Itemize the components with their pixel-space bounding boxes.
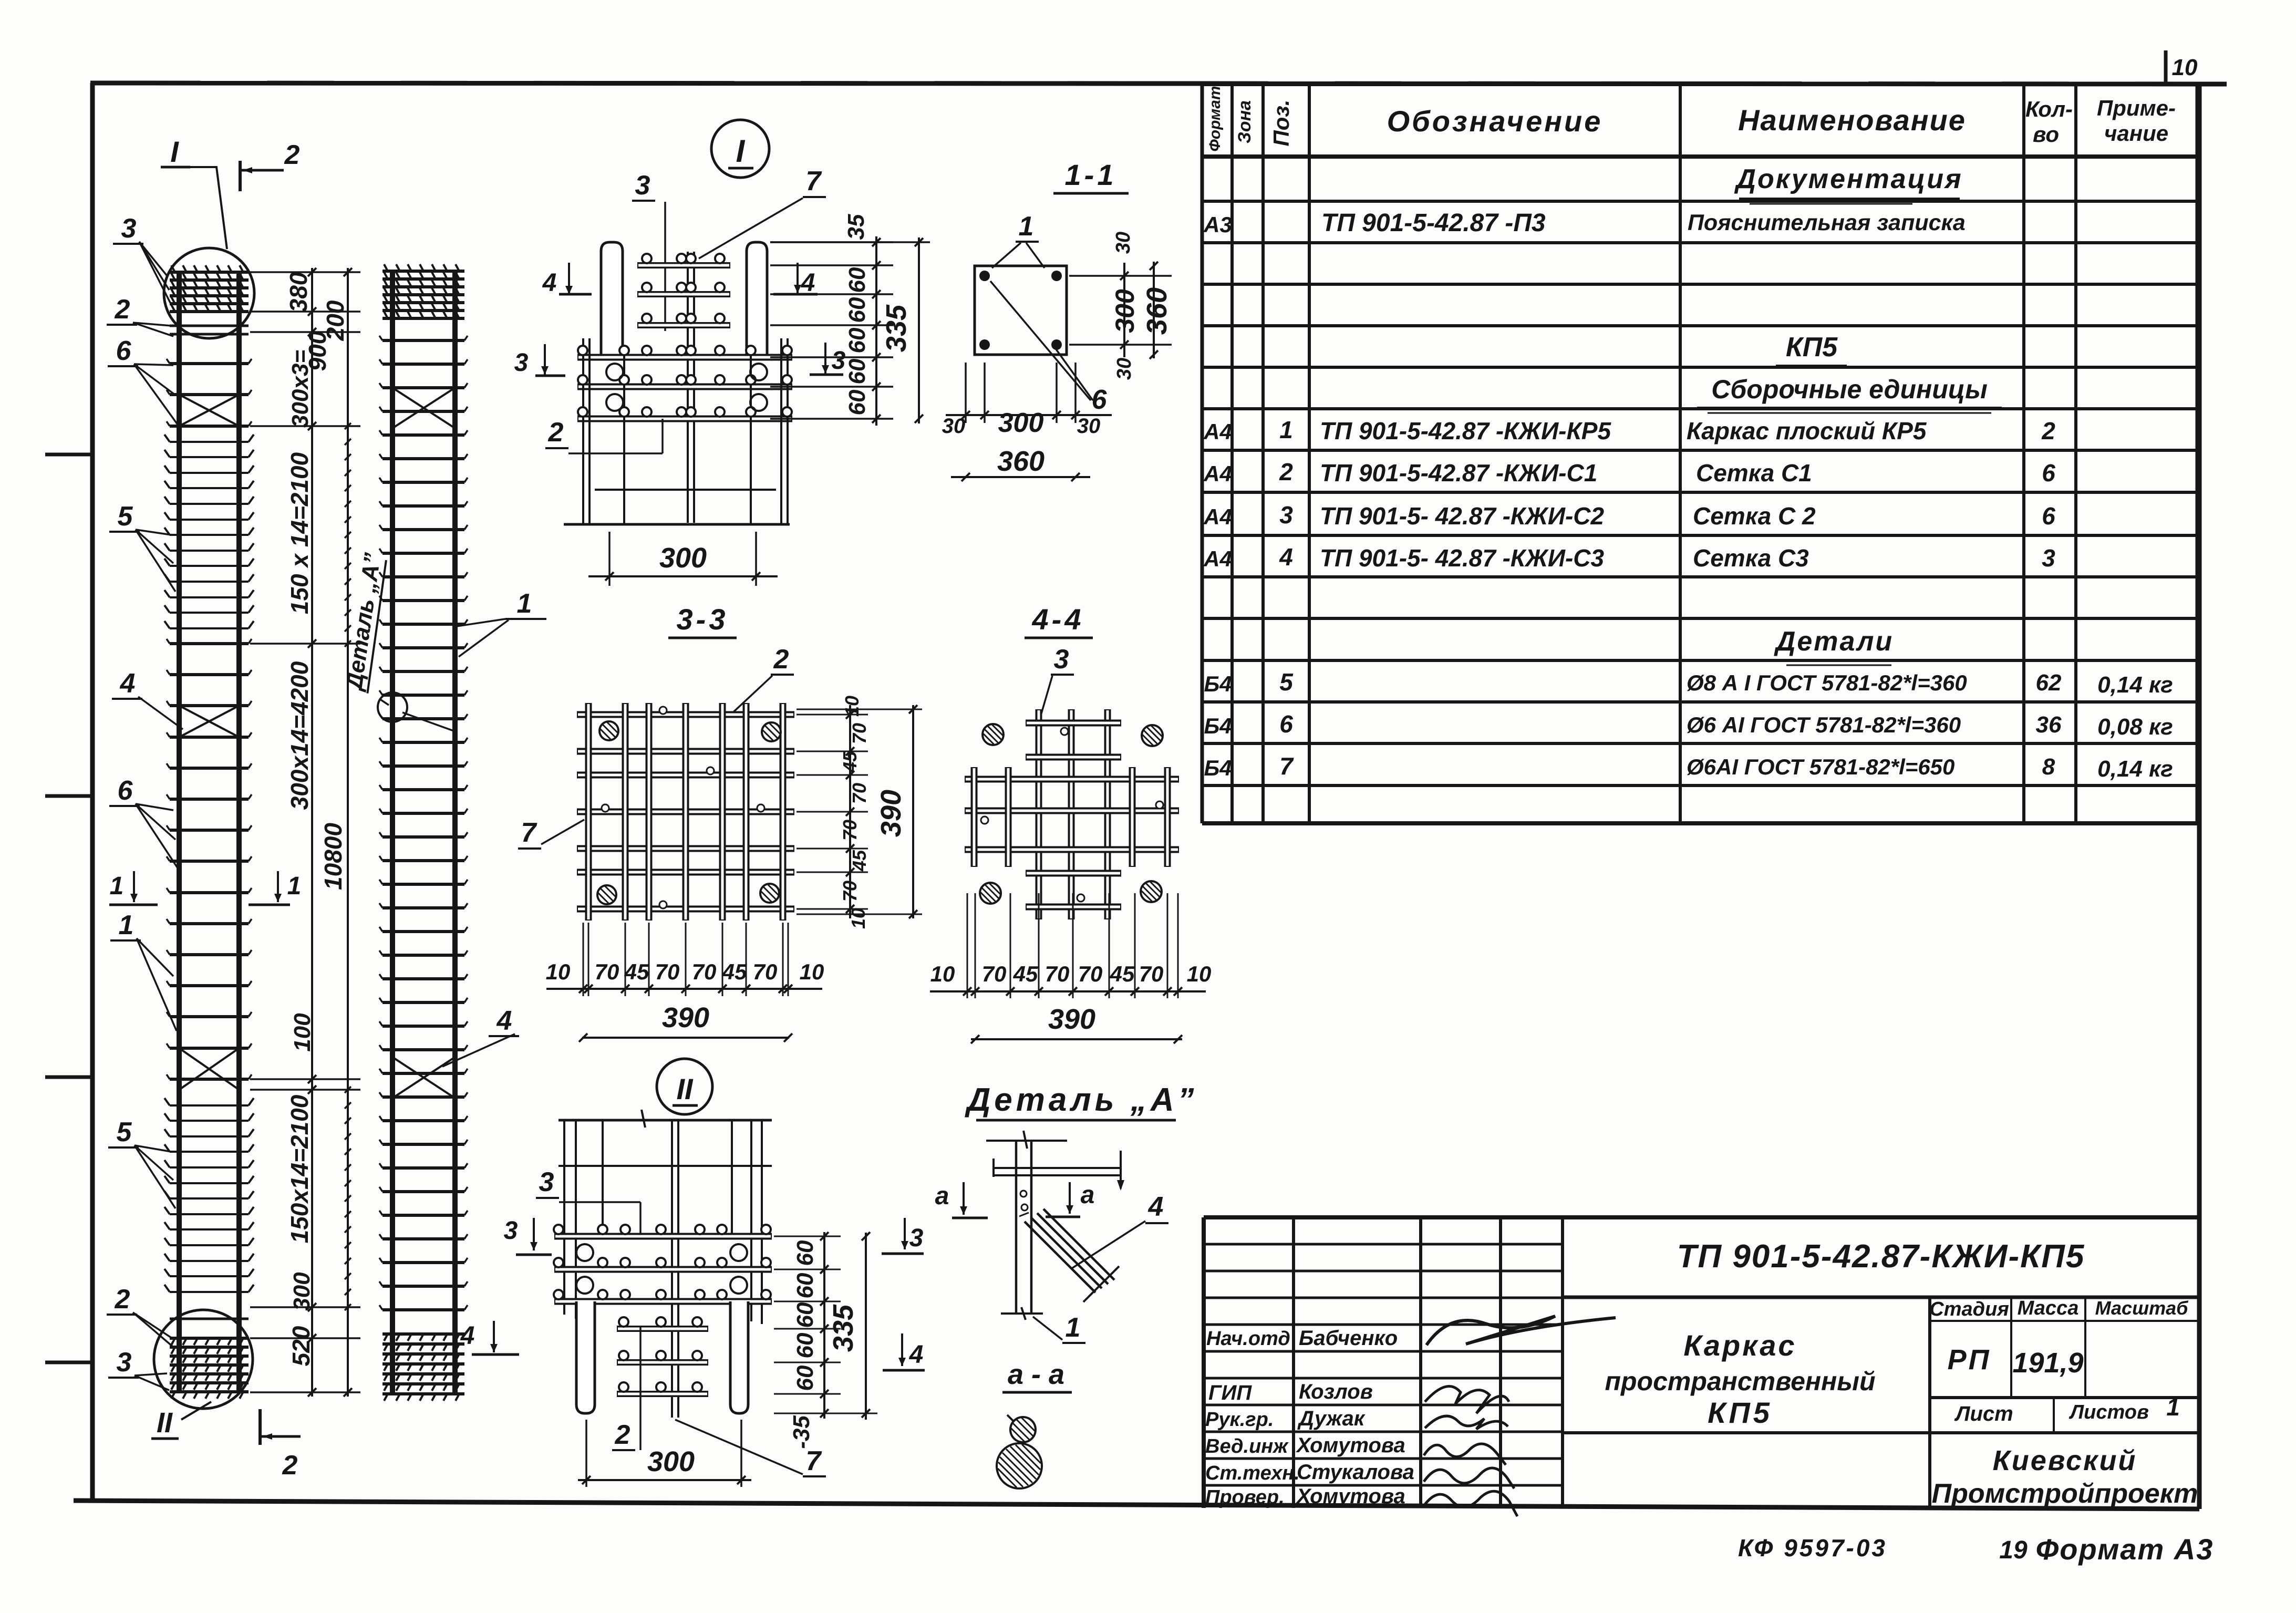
detail II upper rung	[559, 1165, 772, 1167]
detail A rotated title near column 2	[341, 551, 387, 693]
section 4-4 longitudinal bar hatched sections	[982, 724, 1004, 745]
svg-text:45: 45	[722, 959, 747, 984]
svg-text:6: 6	[2042, 502, 2055, 530]
detail I right outer bar post	[747, 242, 767, 355]
svg-text:0,14 кг: 0,14 кг	[2097, 756, 2173, 782]
svg-text:1: 1	[1066, 1312, 1081, 1343]
svg-text:100: 100	[289, 1013, 315, 1052]
svg-text:4: 4	[120, 668, 136, 699]
svg-text:3: 3	[539, 1167, 554, 1197]
svg-text:300: 300	[289, 1272, 315, 1311]
svg-text:390: 390	[1048, 1004, 1095, 1035]
svg-text:70: 70	[1045, 961, 1070, 986]
column 2 bottom mesh zone rungs	[382, 1332, 464, 1336]
section 3-3 mesh vertical bars	[585, 703, 592, 921]
svg-text:Дужак: Дужак	[1297, 1407, 1366, 1430]
section 1-1 right dimension chain 300	[1069, 275, 1172, 277]
column 2 regular rungs	[382, 339, 464, 342]
title block signature Дужак	[1425, 1416, 1508, 1429]
svg-text:19: 19	[1999, 1536, 2028, 1564]
column 1 dense zone rungs 150x14 lower	[170, 1104, 249, 1107]
svg-text:Лист: Лист	[1954, 1402, 2013, 1425]
detail II title circle	[657, 1059, 712, 1114]
svg-text:а: а	[1081, 1181, 1095, 1209]
svg-text:А3: А3	[1203, 212, 1232, 237]
section 1-1 corner bar dots	[979, 271, 990, 281]
section 4-4 center mesh short vertical bars	[971, 767, 978, 867]
svg-text:45: 45	[839, 751, 861, 773]
section 3-3 bottom dimension chain	[588, 923, 589, 996]
section 1-1 total dimension 360 right	[1153, 262, 1155, 358]
svg-text:45: 45	[1110, 961, 1135, 986]
svg-text:Вед.инж: Вед.инж	[1205, 1435, 1289, 1457]
svg-text:Стукалова: Стукалова	[1297, 1461, 1414, 1484]
section 4-4 weld dots	[1061, 728, 1068, 735]
svg-text:Нач.отд: Нач.отд	[1206, 1328, 1290, 1350]
svg-text:4: 4	[497, 1006, 512, 1036]
svg-text:30: 30	[1112, 232, 1134, 254]
svg-text:Детали: Детали	[1774, 626, 1894, 657]
svg-text:3: 3	[635, 170, 650, 201]
svg-text:70: 70	[655, 959, 680, 984]
column 2 top mesh zone rungs	[382, 270, 464, 273]
svg-text:А4: А4	[1203, 504, 1232, 529]
svg-text:4: 4	[1279, 543, 1293, 571]
svg-text:Масштаб: Масштаб	[2095, 1297, 2189, 1319]
svg-text:Пояснительная записка: Пояснительная записка	[1688, 210, 1966, 235]
column 1 bottom mesh zone rungs	[170, 1337, 249, 1340]
svg-text:6: 6	[1092, 385, 1108, 415]
detail II right bottom post	[730, 1301, 748, 1413]
detail A bottom cut mark	[1001, 1312, 1043, 1315]
detail II right dimension chain	[774, 1236, 841, 1237]
svg-text:Ст.техн.: Ст.техн.	[1205, 1462, 1300, 1484]
detail A top rung line	[986, 1140, 1067, 1142]
svg-text:3-3: 3-3	[677, 603, 729, 636]
column 1 300-zone rung	[170, 1318, 249, 1320]
dimension chain line outer 10800	[347, 268, 349, 1397]
section 3-3 mesh horizontal bars	[577, 711, 794, 718]
svg-text:45: 45	[1013, 961, 1038, 986]
svg-text:4: 4	[460, 1322, 475, 1350]
svg-text:7: 7	[521, 818, 537, 848]
svg-text:Кол-: Кол-	[2025, 97, 2073, 121]
section 3-3 right dimension chain	[797, 714, 868, 716]
svg-text:1: 1	[1019, 211, 1034, 242]
svg-text:360: 360	[1141, 287, 1173, 335]
svg-text:Бабченко: Бабченко	[1299, 1327, 1398, 1350]
svg-text:62: 62	[2036, 670, 2062, 696]
svg-text:Каркас: Каркас	[1683, 1329, 1796, 1362]
fold mark ticks on left edge	[45, 453, 92, 457]
section 4-4 upper mesh vertical bars	[1036, 709, 1042, 919]
svg-text:4: 4	[1148, 1192, 1164, 1222]
svg-text:1: 1	[119, 910, 134, 940]
svg-text:Стадия: Стадия	[1929, 1298, 2009, 1320]
svg-text:Зона: Зона	[1235, 100, 1255, 143]
title block signature Стукалова	[1424, 1468, 1514, 1488]
svg-text:2: 2	[115, 294, 130, 325]
svg-text:6: 6	[2042, 459, 2055, 487]
svg-text:Приме-: Приме-	[2097, 96, 2176, 120]
svg-text:7: 7	[1279, 752, 1294, 780]
svg-text:60: 60	[844, 297, 870, 323]
dimension extension lines column 1	[250, 271, 360, 273]
svg-text:КП5: КП5	[1786, 332, 1838, 363]
svg-text:Рук.гр.: Рук.гр.	[1205, 1409, 1274, 1431]
svg-text:Ø6АI ГОСТ 5781-82*l=650: Ø6АI ГОСТ 5781-82*l=650	[1687, 754, 1954, 779]
svg-text:10: 10	[847, 908, 869, 929]
svg-text:Сборочные единицы: Сборочные единицы	[1711, 375, 1988, 404]
svg-text:35: 35	[843, 214, 869, 240]
svg-text:70: 70	[839, 820, 861, 841]
svg-text:2: 2	[548, 417, 564, 448]
title block outer frame	[1204, 1215, 2199, 1219]
svg-text:300: 300	[647, 1446, 695, 1477]
svg-text:КП5: КП5	[1708, 1396, 1773, 1429]
svg-text:Поз.: Поз.	[1269, 100, 1294, 147]
svg-text:390: 390	[875, 790, 907, 837]
svg-text:7: 7	[806, 1446, 822, 1476]
svg-text:I: I	[170, 135, 179, 168]
title block signature Хомутова 1	[1424, 1444, 1506, 1465]
svg-text:Провер.: Провер.	[1205, 1486, 1285, 1508]
svg-text:70: 70	[849, 783, 870, 804]
svg-text:0,14 кг: 0,14 кг	[2097, 672, 2173, 698]
section a-a large bar hatched circle	[997, 1443, 1042, 1488]
svg-text:3: 3	[121, 213, 137, 244]
svg-text:Б4: Б4	[1204, 671, 1232, 696]
svg-text:390: 390	[662, 1002, 709, 1033]
svg-text:3: 3	[504, 1217, 518, 1245]
title block main dividers	[1563, 1296, 2199, 1299]
svg-text:2: 2	[282, 1450, 298, 1481]
svg-text:Листов: Листов	[2069, 1401, 2149, 1423]
detail A horizontal bar	[994, 1167, 1121, 1169]
column 1 top mesh zone rungs	[170, 271, 249, 274]
svg-text:Деталь „А”: Деталь „А”	[964, 1082, 1197, 1118]
section 3-3 total dimension 390 right	[797, 709, 922, 710]
svg-text:2: 2	[1279, 458, 1293, 485]
section 1-1 stirrup square	[975, 266, 1067, 355]
detail II vertical bars	[563, 1120, 565, 1315]
svg-text:Ø6 АI ГОСТ 5781-82*l=360: Ø6 АI ГОСТ 5781-82*l=360	[1687, 712, 1961, 737]
detail II top boundary bar	[559, 1119, 772, 1122]
section 1-1 bottom dimension chain 30 300 30	[965, 363, 967, 423]
svg-text:А4: А4	[1203, 461, 1232, 486]
detail II mesh horizontal bars	[554, 1233, 772, 1240]
svg-text:3: 3	[909, 1224, 924, 1252]
svg-text:3: 3	[2042, 544, 2055, 572]
detail A bent bar bundle	[1025, 1222, 1095, 1293]
svg-text:6: 6	[118, 776, 133, 806]
svg-text:II: II	[157, 1407, 173, 1439]
detail II callout circle on column 1 bottom	[154, 1310, 253, 1409]
detail I upper mesh rungs with cross-bar dots	[637, 262, 730, 268]
svg-text:-35: -35	[789, 1415, 814, 1449]
svg-text:70: 70	[753, 959, 778, 984]
svg-text:60: 60	[792, 1273, 818, 1298]
detail I central vertical bar	[687, 252, 689, 523]
title block signature Хомутова 2	[1424, 1491, 1517, 1516]
svg-text:Ø8 А I ГОСТ 5781-82*l=360: Ø8 А I ГОСТ 5781-82*l=360	[1687, 670, 1967, 695]
detail I callout circle on column 1 top	[164, 248, 254, 338]
svg-text:Хомутова: Хомутова	[1296, 1485, 1405, 1508]
svg-text:2: 2	[773, 644, 789, 675]
svg-text:36: 36	[2036, 712, 2062, 738]
svg-text:335: 335	[828, 1304, 859, 1352]
svg-text:60: 60	[844, 267, 870, 293]
svg-text:300: 300	[1110, 289, 1140, 333]
svg-text:3: 3	[832, 347, 846, 375]
svg-text:Наименование: Наименование	[1738, 104, 1966, 137]
svg-text:3: 3	[117, 1347, 132, 1378]
svg-text:Сетка С3: Сетка С3	[1693, 544, 1809, 572]
detail A weld marks	[1020, 1191, 1027, 1197]
svg-text:6: 6	[116, 336, 132, 366]
svg-text:10800: 10800	[319, 823, 347, 890]
title block signature Козлов	[1425, 1386, 1509, 1413]
svg-text:10: 10	[930, 961, 955, 986]
svg-text:5: 5	[117, 1117, 132, 1147]
svg-text:191,9: 191,9	[2012, 1347, 2083, 1379]
section 4-4 center mesh horizontal bars	[965, 776, 1179, 783]
detail A bent bar end tick	[1083, 1266, 1119, 1302]
svg-text:I: I	[736, 133, 746, 169]
svg-text:ТП 901-5- 42.87 -КЖИ-С3: ТП 901-5- 42.87 -КЖИ-С3	[1320, 544, 1604, 572]
detail I dimension 300 bottom	[608, 532, 611, 586]
title block staff rows	[1204, 1243, 1563, 1246]
svg-text:Б4: Б4	[1204, 714, 1232, 738]
svg-text:4-4: 4-4	[1032, 603, 1084, 636]
section mark 2 bottom of column 1	[258, 1409, 262, 1445]
svg-text:60: 60	[844, 327, 870, 353]
svg-text:30: 30	[1113, 358, 1135, 380]
svg-text:Формат: Формат	[1206, 86, 1224, 151]
detail II lower mesh rungs with dots	[617, 1326, 708, 1332]
specification table grid	[1201, 84, 1204, 823]
svg-text:4: 4	[909, 1341, 924, 1369]
column 1 sparse zone rungs 300x3	[170, 362, 249, 365]
svg-text:а: а	[935, 1182, 949, 1210]
svg-text:3: 3	[1054, 644, 1069, 675]
svg-text:380: 380	[285, 272, 312, 312]
svg-text:6: 6	[1279, 710, 1293, 738]
svg-text:II: II	[676, 1072, 694, 1105]
svg-text:а - а: а - а	[1008, 1359, 1064, 1390]
svg-text:10: 10	[841, 696, 863, 717]
svg-text:3: 3	[514, 349, 529, 377]
svg-text:2: 2	[2041, 417, 2055, 444]
svg-text:60: 60	[792, 1240, 818, 1266]
svg-text:45: 45	[624, 959, 649, 984]
svg-text:Хомутова: Хомутова	[1296, 1434, 1405, 1457]
svg-text:ГИП: ГИП	[1208, 1381, 1252, 1404]
svg-text:чание: чание	[2104, 121, 2168, 146]
svg-text:1: 1	[110, 872, 124, 900]
detail II left bottom post	[576, 1301, 595, 1413]
svg-text:Документация: Документация	[1734, 164, 1962, 194]
svg-text:70: 70	[595, 959, 619, 984]
rebar column elevation view 1 longitudinal bars	[177, 272, 182, 1393]
svg-text:ТП 901-5-42.87-КЖИ-КП5: ТП 901-5-42.87-КЖИ-КП5	[1677, 1238, 2085, 1275]
svg-text:4: 4	[801, 269, 815, 297]
dimension chain line inner column 1	[311, 268, 313, 1397]
svg-text:ТП 901-5-42.87 -П3: ТП 901-5-42.87 -П3	[1321, 209, 1546, 237]
svg-text:70: 70	[1139, 961, 1164, 986]
svg-text:1: 1	[517, 588, 532, 619]
svg-text:10: 10	[1187, 961, 1212, 986]
svg-text:300х14=4200: 300х14=4200	[286, 661, 313, 810]
detail I cage vertical bars	[582, 338, 584, 524]
svg-text:30: 30	[1077, 415, 1101, 438]
svg-text:10: 10	[800, 959, 824, 984]
svg-text:Сетка С1: Сетка С1	[1696, 459, 1812, 487]
svg-text:30: 30	[942, 415, 966, 438]
section 4-4 bottom dimension chain	[967, 893, 968, 998]
svg-text:45: 45	[849, 850, 870, 872]
section 3-3 weld dots	[659, 707, 667, 714]
svg-text:0,08 кг: 0,08 кг	[2097, 714, 2173, 740]
svg-text:150 х 14=2100: 150 х 14=2100	[286, 452, 313, 614]
svg-text:2: 2	[284, 140, 300, 170]
svg-text:5: 5	[118, 501, 133, 532]
svg-text:Козлов: Козлов	[1299, 1380, 1373, 1403]
column 1 sparse zone rungs 300x14	[170, 642, 249, 645]
svg-text:335: 335	[881, 304, 912, 352]
column 1 cross brace X upper	[179, 395, 239, 426]
svg-text:300: 300	[998, 408, 1044, 438]
svg-text:пространственный: пространственный	[1605, 1367, 1875, 1396]
svg-text:7: 7	[806, 166, 822, 197]
svg-text:КФ 9597-03: КФ 9597-03	[1738, 1534, 1887, 1562]
svg-text:2: 2	[115, 1284, 130, 1315]
svg-text:4: 4	[542, 269, 557, 297]
detail I bottom tie bars	[595, 489, 776, 491]
section 4-4 upper and lower short horizontal bars	[1026, 720, 1121, 727]
svg-text:Б4: Б4	[1204, 756, 1232, 780]
section 1-1 total dimension 360 bottom	[951, 476, 1090, 478]
detail II total dimension 335	[865, 1233, 867, 1420]
detail A position circle on column 2	[378, 692, 407, 722]
detail I longitudinal bar section circles	[606, 364, 623, 380]
svg-text:5: 5	[1279, 668, 1294, 696]
svg-text:Киевский: Киевский	[1993, 1445, 2137, 1476]
svg-text:А4: А4	[1203, 419, 1232, 444]
svg-text:60: 60	[844, 389, 870, 415]
column 1 dense zone rungs 150x14 upper	[170, 441, 249, 443]
section a-a small bar hatched circle	[1010, 1417, 1036, 1442]
column 2 cross brace X upper	[392, 388, 455, 428]
detail A vertical bar	[1015, 1141, 1018, 1313]
svg-text:10: 10	[2172, 55, 2198, 80]
svg-text:70: 70	[692, 959, 717, 984]
svg-text:1: 1	[1279, 416, 1293, 443]
detail II dimension 300 bottom	[585, 1420, 587, 1487]
svg-text:Обозначение: Обозначение	[1387, 105, 1603, 138]
detail II longitudinal bar section circles	[576, 1244, 593, 1261]
sheet corner stamp 10	[2164, 50, 2168, 83]
title block staff column lines	[1292, 1217, 1295, 1508]
column 1 cross brace X at 100 zone	[179, 1048, 239, 1090]
svg-text:ТП 901-5-42.87 -КЖИ-С1: ТП 901-5-42.87 -КЖИ-С1	[1320, 459, 1597, 487]
title block signature Бабченко	[1426, 1316, 1616, 1345]
svg-text:2: 2	[615, 1420, 630, 1450]
svg-text:Сетка С 2: Сетка С 2	[1693, 502, 1816, 530]
svg-text:ТП 901-5-42.87 -КЖИ-КР5: ТП 901-5-42.87 -КЖИ-КР5	[1320, 417, 1611, 444]
svg-text:520: 520	[287, 1326, 315, 1366]
detail I left outer bar post	[601, 242, 623, 355]
svg-text:Формат А3: Формат А3	[2036, 1533, 2214, 1566]
svg-text:3: 3	[1279, 501, 1293, 529]
svg-text:70: 70	[1078, 961, 1103, 986]
detail I cage horizontal bars	[577, 354, 792, 361]
svg-text:300: 300	[659, 542, 707, 574]
svg-text:1: 1	[2166, 1393, 2180, 1421]
detail I right dimension chain	[770, 241, 893, 243]
svg-text:8: 8	[2042, 754, 2055, 780]
rebar column elevation view 2 longitudinal bars	[390, 271, 395, 1394]
section 4-4 total dimension 390 bottom	[971, 1038, 1182, 1040]
svg-text:Промстройпроект: Промстройпроект	[1932, 1478, 2198, 1509]
column 1 200-zone rung pair	[170, 325, 249, 327]
svg-text:1-1: 1-1	[1065, 158, 1117, 191]
section mark 2 top of column 1	[239, 161, 242, 191]
svg-text:РП: РП	[1948, 1344, 1991, 1376]
column 1 cross brace X middle	[179, 706, 239, 737]
svg-text:60: 60	[792, 1332, 818, 1358]
svg-text:60: 60	[792, 1302, 818, 1328]
svg-text:ТП 901-5- 42.87 -КЖИ-С2: ТП 901-5- 42.87 -КЖИ-С2	[1320, 502, 1604, 530]
svg-text:1: 1	[287, 872, 302, 900]
svg-text:во: во	[2033, 122, 2059, 147]
svg-text:Масса: Масса	[2018, 1297, 2079, 1319]
section 3-3 total dimension 390 bottom	[582, 1037, 789, 1039]
section 3-3 longitudinal bar hatched sections	[599, 721, 618, 740]
svg-text:70: 70	[849, 723, 870, 744]
svg-text:70: 70	[839, 881, 861, 902]
svg-text:70: 70	[982, 961, 1007, 986]
svg-text:60: 60	[844, 358, 870, 384]
column 2 cross brace X lower	[392, 1057, 455, 1098]
svg-text:300х3=: 300х3=	[287, 350, 313, 428]
svg-text:Каркас плоский КР5: Каркас плоский КР5	[1687, 417, 1927, 444]
svg-text:60: 60	[792, 1365, 818, 1391]
svg-text:150х14=2100: 150х14=2100	[286, 1094, 313, 1243]
svg-text:360: 360	[997, 446, 1044, 477]
detail I title circle	[711, 120, 769, 178]
sheet frame border	[90, 83, 95, 1502]
svg-text:А4: А4	[1203, 546, 1232, 571]
detail I total dimension 335	[918, 237, 920, 423]
svg-text:10: 10	[546, 959, 571, 984]
detail I cage cross-bar dots	[578, 346, 587, 355]
